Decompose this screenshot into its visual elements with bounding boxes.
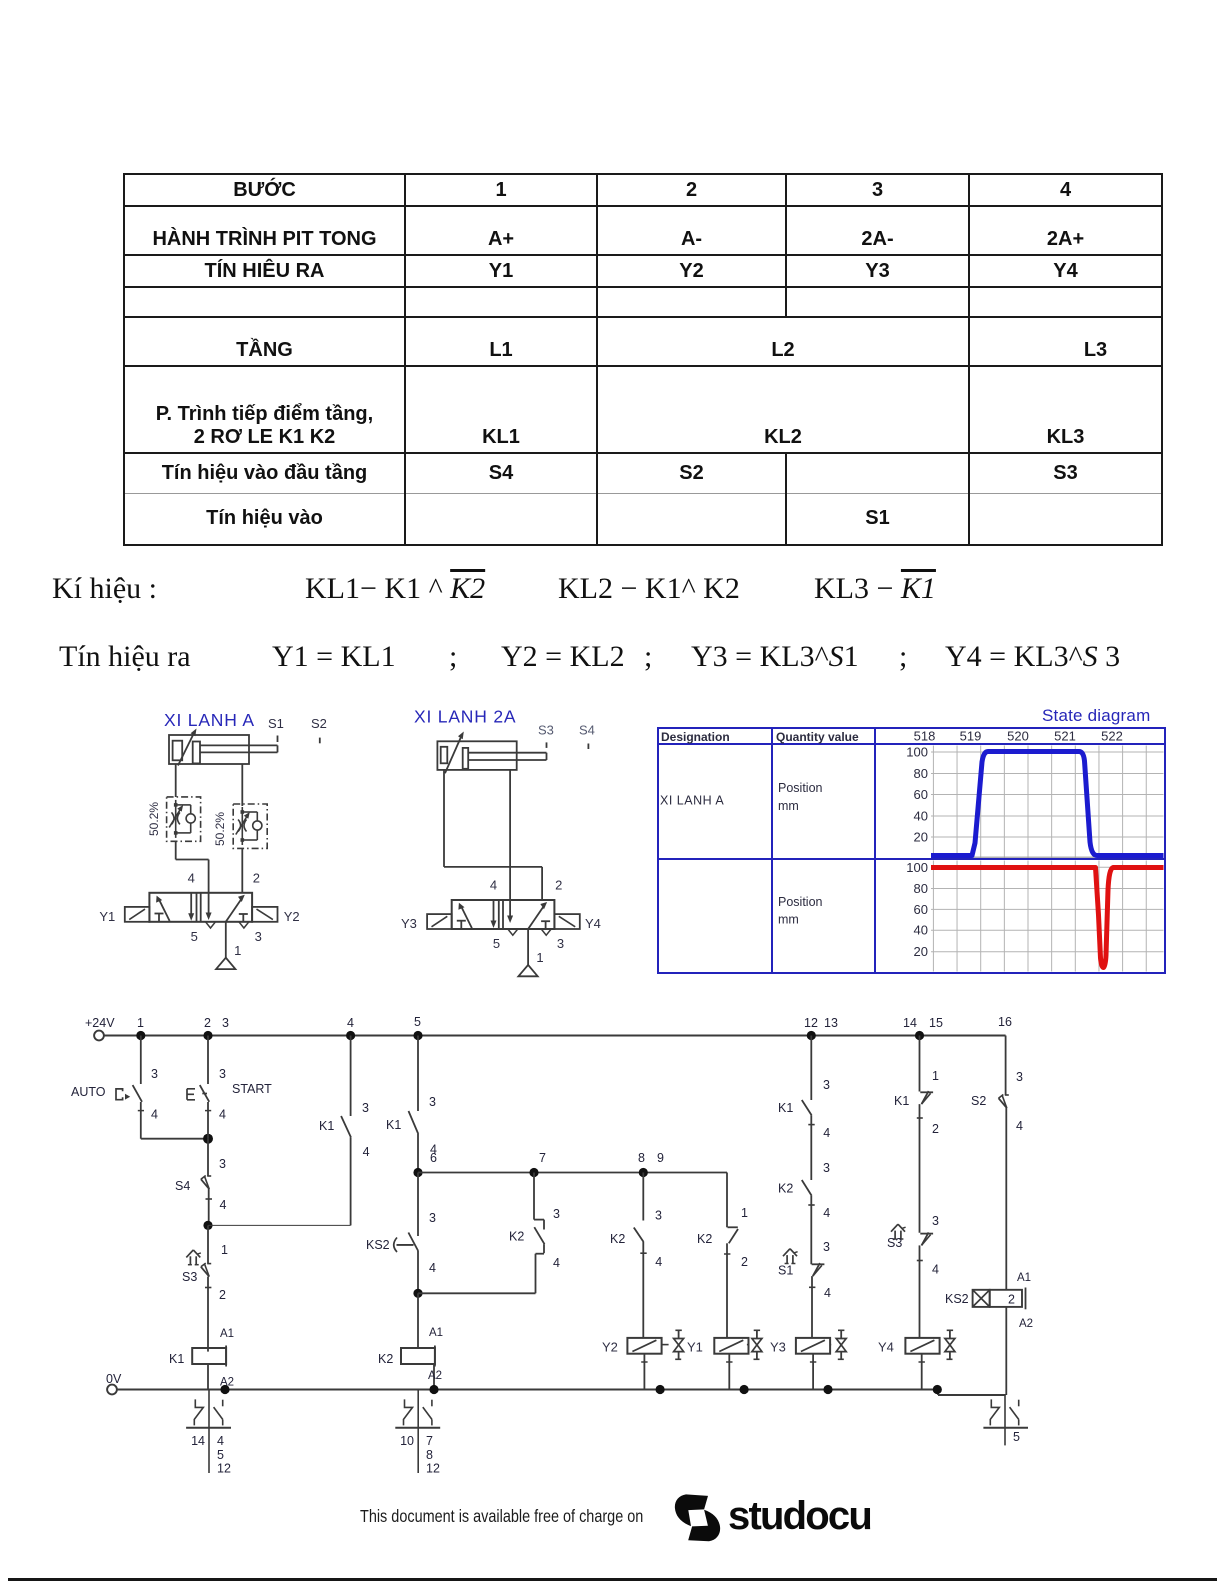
svg-text:K2: K2: [697, 1232, 712, 1246]
0V rail jog segment to branch 16: [938, 1390, 1006, 1396]
node 14 15: [903, 1016, 943, 1040]
svg-text:K2: K2: [610, 1232, 625, 1246]
solenoid Y4: [878, 1330, 955, 1394]
switch AUTO: [71, 1085, 142, 1102]
flow control valve 1 label 50.2%: [147, 802, 161, 836]
counter coil KS2: [945, 1272, 1033, 1330]
wire mid rail corner to contact K2 branch 9: [727, 1173, 748, 1228]
node 12 13: [804, 1016, 838, 1040]
cylinder A title: [164, 710, 255, 730]
wire branch 5 upper: [418, 1036, 436, 1112]
contact K1 branch 12: [778, 1100, 830, 1140]
sensor S1 label and mark: [268, 716, 284, 742]
wire branch AUTO upper: [141, 1036, 158, 1085]
svg-text:A1: A1: [220, 1328, 234, 1340]
wire KS2 contact upper: [418, 1173, 436, 1237]
wire branch 2 upper: [208, 1036, 226, 1085]
flow control valve 2 (50.2%): [233, 804, 267, 848]
svg-text:522: 522: [1101, 729, 1123, 744]
svg-text:S3: S3: [182, 1270, 197, 1284]
svg-text:2: 2: [219, 1288, 226, 1302]
y axis labels row2: [906, 860, 928, 959]
svg-text:1: 1: [741, 1206, 748, 1220]
svg-text:4: 4: [220, 1198, 227, 1212]
svg-text:100: 100: [906, 860, 928, 875]
svg-text:60: 60: [914, 787, 928, 802]
limit switch S3 right: [887, 1224, 939, 1338]
cylinder 2A title: [414, 707, 516, 727]
node K1 on 0V rail: [220, 1385, 229, 1394]
svg-text:4: 4: [363, 1145, 370, 1159]
svg-text:12: 12: [426, 1462, 440, 1476]
svg-text:1: 1: [932, 1069, 939, 1083]
svg-text:3: 3: [429, 1211, 436, 1225]
svg-text:Y2: Y2: [284, 909, 300, 924]
svg-text:3: 3: [222, 1016, 229, 1030]
cylinder A body: [169, 735, 278, 764]
svg-text:4: 4: [824, 1286, 831, 1300]
solenoid Y1: [687, 1330, 762, 1394]
svg-text:Y1: Y1: [99, 909, 115, 924]
row1 quantity label Position mm: [778, 781, 823, 813]
svg-text:KS2: KS2: [945, 1292, 969, 1306]
node 8: [638, 1151, 664, 1177]
svg-text:2: 2: [932, 1122, 939, 1136]
svg-text:12: 12: [804, 1016, 818, 1030]
svg-text:S3: S3: [887, 1236, 902, 1250]
svg-text:12: 12: [217, 1462, 231, 1476]
svg-text:A2: A2: [428, 1370, 442, 1382]
wire branch AUTO lower to junction: [138, 1102, 213, 1144]
contact K1 branch 4: [319, 1116, 370, 1159]
svg-text:3: 3: [823, 1161, 830, 1175]
svg-text:S1: S1: [268, 716, 284, 731]
wire cylinder 2A left port to valve port 2: [444, 770, 542, 901]
svg-text:K1: K1: [778, 1101, 793, 1115]
grid row2: [931, 861, 1164, 972]
svg-text:Y2: Y2: [602, 1340, 618, 1355]
wire junction to contact K2 node7: [418, 1254, 536, 1294]
svg-text:Y4: Y4: [878, 1340, 894, 1355]
svg-text:A2: A2: [1019, 1318, 1033, 1330]
svg-text:519: 519: [960, 729, 982, 744]
sensor S2 label and mark: [311, 716, 327, 743]
svg-text:Y3: Y3: [770, 1340, 786, 1355]
limit switch S1: [778, 1249, 831, 1338]
svg-text:5: 5: [493, 936, 500, 951]
5/2 solenoid valve Y1/Y2: [99, 870, 299, 969]
svg-text:4: 4: [217, 1434, 224, 1448]
svg-text:4: 4: [188, 870, 195, 885]
svg-text:Position: Position: [778, 781, 823, 795]
cylinder 2A body: [437, 741, 546, 770]
wire to solenoid Y2: [642, 1242, 644, 1338]
svg-text:Position: Position: [778, 895, 823, 909]
svg-text:4: 4: [553, 1256, 560, 1270]
svg-text:7: 7: [539, 1151, 546, 1165]
node 7: [529, 1151, 546, 1177]
node 5: [413, 1015, 422, 1040]
svg-text:8: 8: [426, 1448, 433, 1462]
svg-text:3: 3: [823, 1078, 830, 1092]
wire flow valve1 to 5/2 valve port 4: [176, 841, 212, 920]
svg-text:4: 4: [347, 1016, 354, 1030]
svg-text:3: 3: [553, 1207, 560, 1221]
sensor S3 label and mark: [538, 723, 554, 748]
svg-text:518: 518: [914, 729, 936, 744]
svg-text:4: 4: [219, 1108, 226, 1122]
svg-text:1: 1: [221, 1243, 228, 1257]
flow control valve 2 label 50.2%: [213, 812, 227, 846]
5/2 solenoid valve Y3/Y4: [401, 878, 601, 977]
row2 quantity label Position mm: [778, 895, 823, 927]
svg-text:XI LANH A: XI LANH A: [164, 710, 255, 730]
svg-text:S2: S2: [311, 716, 327, 731]
svg-text:State diagram: State diagram: [1042, 706, 1150, 725]
wire node7 to contact K2: [534, 1173, 560, 1230]
contact K2 branch 8: [610, 1228, 662, 1270]
wire node8 to contact: [643, 1173, 662, 1223]
sensor S4 label and mark: [579, 723, 595, 749]
state diagram table frame: [658, 728, 1165, 973]
svg-text:KS2: KS2: [366, 1238, 390, 1252]
svg-text:15: 15: [929, 1016, 943, 1030]
svg-text:3: 3: [219, 1067, 226, 1081]
wire cylinder 2A rod port to valve: [507, 770, 513, 923]
node 4: [346, 1016, 355, 1040]
svg-text:6: 6: [430, 1151, 437, 1165]
svg-text:mm: mm: [778, 799, 799, 813]
svg-text:+24V: +24V: [85, 1016, 115, 1030]
svg-text:520: 520: [1007, 729, 1029, 744]
svg-text:14: 14: [903, 1016, 917, 1030]
svg-text:4: 4: [429, 1261, 436, 1275]
svg-text:60: 60: [914, 902, 928, 917]
svg-text:3: 3: [932, 1214, 939, 1228]
relay coil K1: [169, 1328, 234, 1390]
wire junction to branch 4 (thin): [208, 1224, 351, 1226]
cylinder A stroke arrow: [178, 729, 197, 766]
svg-text:1: 1: [234, 943, 241, 958]
contact K2 branch 12: [778, 1180, 830, 1220]
svg-text:K2: K2: [509, 1230, 524, 1244]
wire branch 4 lower: [350, 1137, 352, 1225]
svg-text:Quantity value: Quantity value: [776, 730, 859, 744]
red position curve: [931, 868, 1164, 968]
wire cylinder A right port: [241, 764, 243, 806]
svg-text:16: 16: [998, 1015, 1012, 1029]
svg-text:3: 3: [655, 1209, 662, 1223]
limit switch S3 left: [182, 1250, 226, 1352]
wire KS2 to 0V jog: [1005, 1307, 1007, 1395]
svg-text:XI LANH A: XI LANH A: [660, 794, 724, 808]
relay K2 contact cross-reference: [395, 1390, 440, 1476]
svg-text:4: 4: [655, 1255, 662, 1269]
svg-text:XI LANH 2A: XI LANH 2A: [414, 707, 516, 727]
svg-text:4: 4: [823, 1126, 830, 1140]
svg-text:521: 521: [1054, 729, 1076, 744]
wire cylinder A left port: [175, 764, 177, 797]
svg-text:2: 2: [741, 1255, 748, 1269]
svg-text:K1: K1: [319, 1119, 334, 1133]
svg-text:80: 80: [914, 766, 928, 781]
svg-text:Y1: Y1: [687, 1340, 703, 1355]
svg-text:3: 3: [151, 1067, 158, 1081]
cylinder 2A stroke arrow: [445, 732, 464, 774]
wire branch 5 to node 6: [418, 1134, 437, 1173]
wire label 3 before S3: [932, 1214, 939, 1228]
relay K1 contact cross-reference: [186, 1390, 231, 1476]
svg-text:40: 40: [914, 923, 928, 938]
grid row1: [931, 746, 1164, 859]
wire node14 to contact K1: [920, 1036, 940, 1092]
wire branch 4 upper: [351, 1036, 369, 1117]
svg-text:2: 2: [204, 1016, 211, 1030]
contact K1 branch 14: [894, 1091, 939, 1233]
svg-text:5: 5: [191, 929, 198, 944]
svg-text:80: 80: [914, 881, 928, 896]
svg-text:S2: S2: [971, 1094, 986, 1108]
svg-text:S1: S1: [778, 1264, 793, 1278]
svg-text:0V: 0V: [106, 1372, 122, 1386]
svg-text:100: 100: [906, 745, 928, 760]
contact K2 branch 9: [697, 1227, 748, 1338]
svg-text:1: 1: [137, 1016, 144, 1030]
svg-text:3: 3: [255, 929, 262, 944]
svg-text:1: 1: [536, 950, 543, 965]
state diagram title: [1042, 706, 1150, 725]
x axis labels 518-522: [914, 729, 1123, 744]
svg-text:50.2%: 50.2%: [213, 812, 227, 846]
svg-text:A1: A1: [1017, 1272, 1031, 1284]
flow control valve 1 (50.2%): [167, 797, 201, 841]
svg-text:3: 3: [219, 1157, 226, 1171]
svg-text:4: 4: [1016, 1119, 1023, 1133]
svg-text:13: 13: [824, 1016, 838, 1030]
svg-text:5: 5: [414, 1015, 421, 1029]
svg-text:4: 4: [151, 1108, 158, 1122]
svg-text:4: 4: [932, 1263, 939, 1277]
contact K2 node7: [509, 1227, 560, 1270]
svg-text:20: 20: [914, 830, 928, 845]
switch START: [187, 1082, 272, 1102]
svg-text:mm: mm: [778, 913, 799, 927]
node 1: [136, 1016, 145, 1040]
row label XI LANH A: [660, 794, 724, 808]
svg-text:7: 7: [426, 1434, 433, 1448]
wire top rail corner to S2: [1006, 1036, 1023, 1096]
contact KS2: [366, 1233, 418, 1253]
svg-text:Y3: Y3: [401, 916, 417, 931]
wire START lower: [205, 1102, 226, 1139]
svg-text:3: 3: [362, 1101, 369, 1115]
svg-text:A1: A1: [429, 1327, 443, 1339]
svg-text:2: 2: [253, 870, 260, 885]
svg-text:3: 3: [1016, 1070, 1023, 1084]
solenoid Y3: [770, 1330, 846, 1394]
wire to S3: [208, 1225, 228, 1263]
svg-text:studocu: studocu: [728, 1494, 871, 1538]
svg-text:AUTO: AUTO: [71, 1085, 106, 1099]
svg-text:3: 3: [557, 936, 564, 951]
svg-text:14: 14: [191, 1434, 205, 1448]
svg-text:K1: K1: [169, 1352, 184, 1366]
y axis labels row1: [906, 745, 928, 845]
svg-text:S3: S3: [538, 723, 554, 738]
node 16 label: [998, 1015, 1012, 1029]
row1 zero baseline: [931, 856, 1164, 858]
svg-text:10: 10: [400, 1434, 414, 1448]
wire flow valve2 to 5/2 valve port 2: [241, 848, 243, 892]
svg-text:3: 3: [429, 1095, 436, 1109]
wire to S4: [208, 1139, 226, 1176]
node 2: [203, 1016, 229, 1040]
+24V supply rail: [85, 1016, 1006, 1040]
wire node12 to contact K1: [811, 1036, 830, 1101]
limit switch S4: [175, 1176, 227, 1226]
svg-text:S4: S4: [175, 1179, 190, 1193]
svg-text:Designation: Designation: [661, 730, 730, 744]
svg-text:2: 2: [1008, 1293, 1015, 1307]
svg-text:9: 9: [657, 1151, 664, 1165]
wire between K1 and K2: [811, 1115, 830, 1180]
svg-text:START: START: [232, 1082, 272, 1096]
node S4 junction: [203, 1221, 212, 1230]
node 6 and mid rail: [413, 1168, 727, 1177]
svg-text:8: 8: [638, 1151, 645, 1165]
wire KS2 lower to junction: [413, 1251, 436, 1298]
svg-text:4: 4: [823, 1206, 830, 1220]
svg-text:Y4: Y4: [585, 916, 601, 931]
svg-text:K2: K2: [778, 1182, 793, 1196]
svg-text:5: 5: [1013, 1430, 1020, 1444]
svg-text:20: 20: [914, 944, 928, 959]
svg-text:4: 4: [490, 878, 497, 893]
svg-text:2: 2: [555, 878, 562, 893]
blue position curve XI LANH A: [931, 752, 1164, 856]
svg-text:K1: K1: [386, 1118, 401, 1132]
svg-text:S4: S4: [579, 723, 595, 738]
relay coil K2: [378, 1293, 443, 1394]
svg-text:3: 3: [823, 1240, 830, 1254]
svg-text:K1: K1: [894, 1094, 909, 1108]
svg-text:50.2%: 50.2%: [147, 802, 161, 836]
svg-text:40: 40: [914, 809, 928, 824]
state diagram header labels: [661, 730, 859, 744]
svg-text:5: 5: [217, 1448, 224, 1462]
0V return rail: [106, 1372, 938, 1394]
limit switch S2: [971, 1094, 1023, 1290]
relay KS2 contact cross-reference: [983, 1395, 1028, 1445]
svg-text:K2: K2: [378, 1352, 393, 1366]
contact K1 branch 5: [386, 1111, 437, 1157]
solenoid Y2: [602, 1330, 684, 1394]
wire between K2 and S1: [811, 1196, 830, 1265]
